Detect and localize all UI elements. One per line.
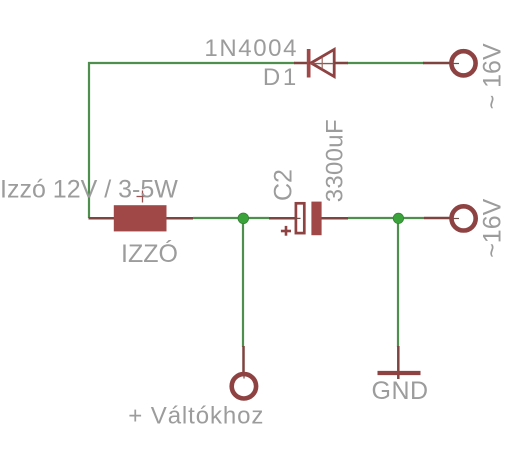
svg-text:~ 16V: ~ 16V (479, 43, 507, 109)
svg-text:IZZÓ: IZZÓ (121, 239, 178, 268)
svg-text:C2: C2 (270, 169, 298, 201)
svg-text:D1: D1 (263, 64, 299, 91)
svg-text:GND: GND (372, 377, 429, 405)
svg-text:1N4004: 1N4004 (204, 35, 298, 62)
svg-text:Izzó 12V / 3-5W: Izzó 12V / 3-5W (0, 175, 178, 203)
svg-text:+ Váltókhoz: + Váltókhoz (128, 403, 264, 430)
svg-text:~16V: ~16V (479, 198, 507, 257)
svg-text:3300uF: 3300uF (322, 119, 349, 202)
